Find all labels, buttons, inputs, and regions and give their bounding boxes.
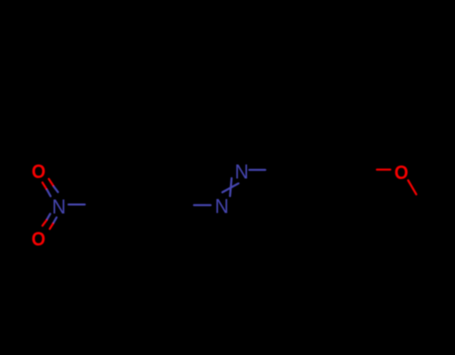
nitro group: double bond N=O (top), line 1 red half <box>42 170 416 229</box>
atom label N1 (azo) <box>215 195 229 217</box>
bond N to ring (blue half) <box>69 203 85 205</box>
nitro N=O bottom, line 1 red half <box>42 220 46 226</box>
atom label O (nitro top) <box>32 160 46 182</box>
nitro N=O top, line 2 blue half <box>54 187 58 193</box>
benzene ring left (invisible black on black) <box>101 171 181 240</box>
svg-text:N: N <box>215 195 229 217</box>
svg-text:N: N <box>235 161 249 183</box>
atom label O (nitro bottom) <box>32 228 46 250</box>
bond ring to methoxy O (red half) <box>377 169 390 171</box>
atom label N2 (azo) <box>235 161 249 183</box>
bond O to methyl (red half) <box>408 180 416 194</box>
azo N=N crossed double bond, shallow line <box>222 183 238 192</box>
svg-text:N: N <box>52 196 66 218</box>
svg-text:O: O <box>32 228 46 250</box>
nitro N=O top, line 1 blue half <box>47 190 51 196</box>
azo N=N crossed double bond, steep line <box>230 178 232 196</box>
benzene ring right (invisible black on black) <box>281 135 361 204</box>
bond ring to azo N1 (blue half) <box>194 204 211 206</box>
nitro N=O top, line 2 red half <box>49 179 54 187</box>
nitro N=O bottom, line 2 red half <box>50 224 53 229</box>
svg-text:O: O <box>32 160 46 182</box>
nitro N=O bottom, line 1 blue half <box>47 214 51 220</box>
atom label N (nitro) <box>52 196 66 218</box>
nitro N=O bottom, line 2 blue half <box>53 217 57 223</box>
atom label O (methoxy) <box>394 161 408 183</box>
svg-text:O: O <box>394 161 408 183</box>
bond azo N2 to right ring (blue half) <box>249 169 265 171</box>
